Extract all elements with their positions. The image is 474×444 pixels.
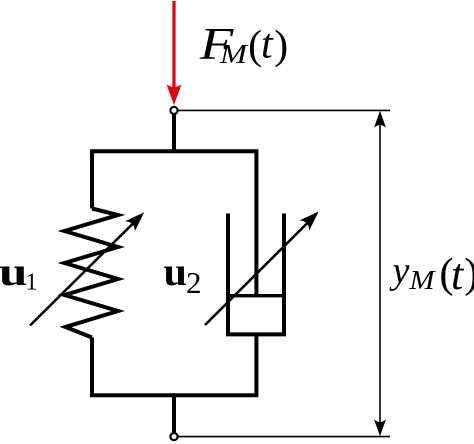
svg-text:u: u xyxy=(164,249,188,294)
svg-text:): ) xyxy=(464,250,474,297)
label u1 xyxy=(0,249,38,296)
wire: damper rod bottom + bottom bar + left edge bottom xyxy=(92,334,256,395)
svg-text:M: M xyxy=(219,39,249,69)
spring u1 (variable) xyxy=(65,209,119,338)
damper u2: cylinder cup xyxy=(228,214,284,335)
svg-text:): ) xyxy=(274,22,288,68)
label u2 xyxy=(164,249,202,300)
spring variability arrow xyxy=(30,207,149,325)
wire: top node to top bar xyxy=(172,115,176,154)
svg-text:1: 1 xyxy=(26,270,38,296)
svg-text:t: t xyxy=(451,250,465,299)
svg-text:u: u xyxy=(0,249,28,294)
damper variability arrow xyxy=(205,207,324,325)
label F_M(t) xyxy=(199,18,288,69)
svg-text:t: t xyxy=(261,22,274,68)
wire: top bar + left edge + damper rod top xyxy=(92,151,256,295)
svg-text:2: 2 xyxy=(186,265,202,300)
node: bottom terminal xyxy=(170,433,177,440)
wire: bottom connector to dimension line xyxy=(178,436,390,438)
svg-text:y: y xyxy=(389,250,410,292)
damper piston xyxy=(228,294,284,297)
label y_M(t) xyxy=(389,250,474,299)
force arrow F_M(t) (red) xyxy=(167,1,182,105)
dimension line y_M(t) xyxy=(374,111,386,436)
wire: bottom bar to bottom node xyxy=(172,395,176,433)
svg-text:M: M xyxy=(408,265,436,295)
wire: top connector to dimension line xyxy=(174,109,390,111)
svg-text:(: ( xyxy=(248,22,262,68)
node: top terminal xyxy=(170,107,177,114)
